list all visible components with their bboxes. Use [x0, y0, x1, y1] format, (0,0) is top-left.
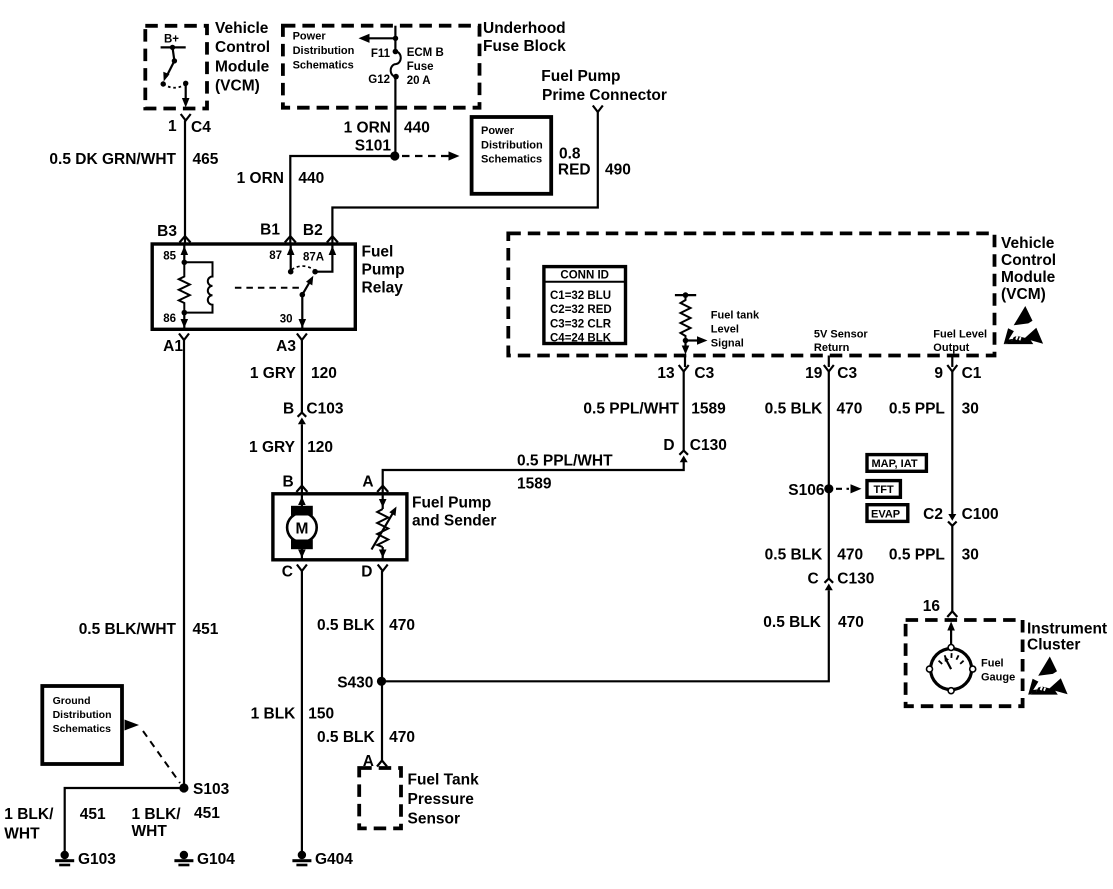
svg-text:0.5 PPL/WHT: 0.5 PPL/WHT	[583, 401, 679, 418]
dashed arrow S101 to power distribution schematics	[402, 151, 460, 160]
relay pin 87 with arrow	[269, 244, 294, 275]
fuel level output label	[933, 329, 987, 355]
svg-text:120: 120	[311, 365, 337, 382]
svg-text:C1=32 BLU: C1=32 BLU	[550, 290, 611, 302]
svg-text:Return: Return	[814, 342, 850, 354]
svg-text:C1: C1	[962, 365, 982, 382]
svg-text:Fuel Pump: Fuel Pump	[541, 68, 620, 85]
svg-text:Pump: Pump	[362, 262, 405, 279]
connector B1 at relay	[260, 222, 296, 243]
ESD symbol at VCM	[1004, 306, 1043, 344]
relay coil resistor	[179, 262, 190, 312]
svg-text:87: 87	[269, 250, 282, 262]
svg-text:30: 30	[962, 401, 979, 418]
wire label 0.8 RED 490	[558, 146, 631, 179]
wire C2 C100 down to instrument cluster pin 16	[951, 526, 953, 611]
wire VCM pin 1 down to relay B3	[184, 121, 186, 244]
connector A3 below relay	[276, 334, 307, 356]
ground G103	[55, 851, 116, 868]
svg-text:Distribution: Distribution	[293, 45, 355, 57]
svg-text:A: A	[362, 474, 373, 491]
svg-text:C4: C4	[191, 119, 211, 136]
svg-text:C3: C3	[837, 365, 857, 382]
wire label 0.5 DK GRN/WHT 465	[49, 151, 218, 168]
underhood fuse block dashed box	[283, 20, 566, 108]
inline connector D C130	[663, 437, 726, 462]
svg-text:0.5 BLK: 0.5 BLK	[317, 617, 376, 634]
svg-text:EVAP: EVAP	[871, 508, 900, 520]
wire label 1 BLK/WHT 451 left branch	[4, 806, 106, 843]
svg-text:Fuel Pump: Fuel Pump	[412, 495, 491, 512]
connector 1 C4	[168, 114, 211, 136]
svg-text:Fuel tank: Fuel tank	[711, 310, 760, 322]
connector D below fuel pump	[361, 564, 387, 581]
wire C C130 down and left to splice S430	[382, 590, 829, 681]
fuel gauge	[927, 645, 1016, 694]
splice S430	[337, 675, 386, 692]
svg-text:451: 451	[80, 806, 106, 823]
svg-text:Schematics: Schematics	[293, 60, 354, 72]
svg-text:Fuel Tank: Fuel Tank	[408, 772, 480, 789]
svg-text:Fuel: Fuel	[981, 658, 1004, 670]
svg-text:13: 13	[657, 365, 675, 382]
splice S101	[355, 138, 400, 161]
svg-text:WHT: WHT	[4, 826, 40, 843]
dashed arrow ground box to S103	[125, 720, 181, 784]
svg-text:ECM B: ECM B	[407, 47, 444, 59]
svg-text:20 A: 20 A	[407, 75, 431, 87]
svg-text:Schematics: Schematics	[481, 154, 542, 166]
wire D down to splice S430	[381, 571, 383, 681]
svg-text:465: 465	[193, 151, 219, 168]
svg-text:C100: C100	[962, 506, 999, 523]
svg-text:1 BLK: 1 BLK	[251, 706, 297, 723]
svg-text:0.5 BLK: 0.5 BLK	[765, 547, 824, 564]
svg-text:1 ORN: 1 ORN	[344, 120, 391, 137]
inline connector B C103	[283, 401, 344, 425]
svg-text:B3: B3	[157, 223, 177, 240]
relay actuation dashed line	[235, 287, 299, 289]
connector A at fuel pump	[362, 474, 388, 493]
svg-text:C2: C2	[923, 506, 943, 523]
svg-text:1589: 1589	[517, 476, 552, 493]
relay coil inductor	[184, 262, 212, 312]
svg-text:MAP, IAT: MAP, IAT	[872, 458, 918, 470]
svg-text:B1: B1	[260, 222, 280, 239]
wire A up and right to connector D C130	[383, 462, 684, 494]
MAP, IAT box	[867, 455, 926, 472]
svg-text:451: 451	[194, 805, 220, 822]
svg-text:D: D	[663, 437, 674, 454]
svg-text:0.8: 0.8	[559, 146, 581, 163]
wire C down to ground G404	[301, 571, 303, 852]
svg-text:470: 470	[389, 617, 415, 634]
wire 19 C3 down to splice S106	[828, 372, 830, 579]
svg-text:0.5 BLK: 0.5 BLK	[763, 614, 822, 631]
svg-text:0.5 PPL: 0.5 PPL	[889, 401, 945, 418]
relay pin 30 with exit arrow	[280, 297, 306, 329]
svg-text:Level: Level	[711, 324, 739, 336]
svg-text:Cluster: Cluster	[1027, 637, 1080, 654]
svg-text:C4=24 BLK: C4=24 BLK	[550, 333, 612, 345]
svg-text:Sensor: Sensor	[408, 811, 461, 828]
wire label 1 ORN 440	[237, 170, 325, 187]
connector C below fuel pump	[282, 564, 307, 581]
svg-text:Control: Control	[1001, 252, 1056, 269]
svg-text:19: 19	[805, 365, 823, 382]
wire label 1 ORN 440	[344, 120, 430, 137]
svg-text:1589: 1589	[691, 401, 726, 418]
wire pin 16 into fuel gauge with arrow	[947, 622, 955, 646]
svg-text:Vehicle: Vehicle	[215, 20, 269, 37]
svg-text:C103: C103	[306, 401, 343, 418]
svg-text:1 BLK/: 1 BLK/	[132, 806, 182, 823]
wire label 0.5 BLK 470	[317, 729, 415, 746]
svg-text:440: 440	[404, 120, 430, 137]
svg-text:RED: RED	[558, 162, 591, 179]
ground G404	[292, 851, 353, 868]
svg-text:Module: Module	[1001, 269, 1056, 286]
svg-text:0.5 BLK: 0.5 BLK	[765, 401, 824, 418]
fuel pump relay driver switch inside VCM	[161, 47, 190, 107]
wire S430 down to fuel tank pressure sensor	[381, 681, 383, 760]
svg-text:85: 85	[163, 251, 176, 263]
inline connector C C130	[807, 571, 874, 591]
svg-text:Pressure: Pressure	[408, 791, 475, 808]
wire 9 C1 down to connector C2 C100	[951, 372, 953, 515]
svg-text:451: 451	[193, 621, 219, 638]
node B+ terminal inside VCM	[161, 34, 186, 51]
svg-text:CONN ID: CONN ID	[560, 270, 609, 282]
svg-text:F11: F11	[371, 48, 391, 60]
svg-text:S103: S103	[193, 781, 230, 798]
svg-text:B: B	[282, 474, 293, 491]
svg-text:TFT: TFT	[874, 484, 894, 496]
wire label 1 GRY 120	[250, 365, 337, 382]
svg-text:Gauge: Gauge	[981, 672, 1015, 684]
wire label 0.5 BLK/WHT 451	[79, 621, 219, 638]
wire prime connector down and left to relay B2	[332, 112, 597, 243]
svg-text:87A: 87A	[303, 252, 324, 264]
splice S103	[179, 781, 229, 798]
svg-text:Distribution: Distribution	[53, 709, 112, 721]
svg-text:Signal: Signal	[711, 338, 744, 350]
wire C103 down to fuel pump B	[301, 424, 303, 493]
svg-text:Fuel Level: Fuel Level	[933, 329, 987, 341]
svg-text:490: 490	[605, 162, 631, 179]
wire label 0.5 PPL 30	[889, 401, 979, 418]
fuel tank level signal pull-up resistor	[675, 292, 760, 354]
ground distribution schematics box	[42, 686, 122, 764]
instrument cluster dashed box	[906, 620, 1107, 706]
svg-text:Power: Power	[293, 31, 327, 43]
svg-text:5V Sensor: 5V Sensor	[814, 329, 869, 341]
wire label 0.5 BLK 470	[765, 401, 863, 418]
svg-text:120: 120	[307, 439, 333, 456]
power distribution schematics solid box	[472, 117, 552, 194]
svg-text:Control: Control	[215, 39, 270, 56]
svg-text:30: 30	[280, 314, 293, 326]
wire S101 left and down to relay B1	[290, 156, 395, 243]
svg-text:Underhood: Underhood	[483, 20, 566, 37]
svg-text:0.5 DK GRN/WHT: 0.5 DK GRN/WHT	[49, 151, 176, 168]
svg-text:9: 9	[934, 365, 943, 382]
wire label 0.5 PPL/WHT 1589	[517, 453, 613, 493]
svg-text:0.5 PPL/WHT: 0.5 PPL/WHT	[517, 453, 613, 470]
svg-text:470: 470	[838, 614, 864, 631]
wire label 0.5 BLK 470 below S106	[765, 547, 863, 564]
connector 19 C3	[805, 356, 857, 383]
CONN ID table	[544, 267, 626, 345]
svg-text:C130: C130	[837, 571, 874, 588]
wire fuse G12 down to S101	[394, 77, 396, 156]
svg-text:0.5 BLK/WHT: 0.5 BLK/WHT	[79, 621, 177, 638]
svg-text:0.5 BLK: 0.5 BLK	[317, 729, 376, 746]
svg-text:1 GRY: 1 GRY	[250, 365, 297, 382]
svg-text:470: 470	[389, 729, 415, 746]
connector B at fuel pump	[282, 474, 307, 493]
svg-text:M: M	[295, 521, 308, 538]
svg-text:C130: C130	[690, 437, 727, 454]
ESD symbol at instrument cluster	[1028, 657, 1067, 695]
fuel pump and sender box	[273, 494, 497, 560]
svg-text:(VCM): (VCM)	[1001, 286, 1046, 303]
EVAP box	[867, 505, 908, 522]
svg-text:and Sender: and Sender	[412, 513, 496, 530]
svg-text:Fuse: Fuse	[407, 61, 434, 73]
svg-text:16: 16	[923, 598, 941, 615]
svg-text:1 ORN: 1 ORN	[237, 170, 284, 187]
svg-text:470: 470	[837, 547, 863, 564]
svg-text:Fuel: Fuel	[362, 244, 394, 261]
svg-text:1 GRY: 1 GRY	[249, 439, 296, 456]
TFT box	[867, 481, 900, 498]
wire A1 down to splice S103	[183, 340, 185, 788]
wire 13 C3 down to connector D C130	[683, 372, 685, 451]
svg-text:Power: Power	[481, 125, 515, 137]
wire feed into fuse with left arrow	[359, 26, 399, 52]
wire A3 down to connector C103	[301, 340, 303, 413]
relay pin 86 with exit arrow	[163, 310, 188, 329]
fuel tank pressure sensor dashed box	[359, 768, 479, 828]
svg-text:470: 470	[837, 401, 863, 418]
svg-text:Distribution: Distribution	[481, 139, 543, 151]
wire label 0.5 PPL/WHT 1589	[583, 401, 726, 418]
connector A1 below relay	[163, 334, 189, 356]
svg-text:Fuse Block: Fuse Block	[483, 38, 566, 55]
relay pin 85 with entry arrow	[163, 244, 188, 265]
svg-text:1 BLK/: 1 BLK/	[4, 806, 54, 823]
svg-text:440: 440	[298, 170, 324, 187]
svg-text:Schematics: Schematics	[53, 723, 112, 735]
svg-text:D: D	[361, 564, 372, 581]
vehicle control module (VCM) right dashed box	[508, 233, 1056, 355]
svg-text:A3: A3	[276, 338, 296, 355]
inline connector C2 C100	[923, 506, 998, 526]
relay switch lever and pivot	[300, 276, 314, 298]
wire label 0.5 BLK 470	[317, 617, 415, 634]
svg-text:0.5 PPL: 0.5 PPL	[889, 547, 945, 564]
ground G104	[174, 851, 235, 868]
svg-text:S430: S430	[337, 675, 373, 692]
5V sensor return label	[814, 329, 869, 355]
wire label 1 BLK/WHT 451 centre branch	[132, 805, 221, 840]
fuel pump motor M	[287, 494, 317, 560]
svg-text:C2=32 RED: C2=32 RED	[550, 304, 612, 316]
relay switch throw dashed arc	[292, 266, 314, 270]
svg-text:Prime Connector: Prime Connector	[542, 87, 667, 104]
svg-text:C3=32 CLR: C3=32 CLR	[550, 319, 612, 331]
svg-text:C: C	[807, 571, 818, 588]
svg-text:30: 30	[962, 547, 979, 564]
svg-text:B+: B+	[164, 34, 179, 46]
wire label 1 BLK 150	[251, 706, 335, 723]
svg-text:WHT: WHT	[132, 823, 168, 840]
connector B3 at relay	[157, 223, 190, 243]
svg-text:Output: Output	[933, 342, 969, 354]
svg-text:86: 86	[163, 313, 176, 325]
svg-text:150: 150	[308, 706, 334, 723]
fuel pump relay box	[152, 244, 404, 330]
connector 16 at instrument cluster	[923, 598, 958, 617]
fuel pump prime connector	[541, 68, 667, 112]
svg-text:C: C	[282, 564, 293, 581]
svg-text:B: B	[283, 401, 294, 418]
connector A at fuel tank pressure sensor	[363, 753, 387, 770]
svg-text:A1: A1	[163, 338, 183, 355]
wire label 0.5 BLK 470	[763, 614, 864, 631]
svg-text:1: 1	[168, 118, 177, 135]
svg-text:Relay: Relay	[362, 280, 404, 297]
svg-text:C3: C3	[694, 365, 714, 382]
svg-text:S106: S106	[788, 482, 825, 499]
connector B2 at relay	[303, 222, 338, 243]
svg-text:Module: Module	[215, 59, 270, 76]
svg-text:G103: G103	[78, 851, 116, 868]
svg-text:Instrument: Instrument	[1027, 621, 1107, 638]
svg-text:Vehicle: Vehicle	[1001, 235, 1055, 252]
relay pin 87A wire from B2	[303, 244, 336, 275]
svg-text:G404: G404	[315, 851, 353, 868]
wire label 1 GRY 120	[249, 439, 333, 456]
connector 13 C3	[657, 356, 714, 383]
svg-text:Ground: Ground	[53, 695, 91, 707]
connector 9 C1	[934, 356, 981, 383]
splice S106 with dashed arrow	[788, 482, 861, 499]
vehicle control module (VCM) top-left dashed box	[145, 20, 270, 109]
svg-text:G12: G12	[368, 74, 390, 86]
wire S103 left and down to ground G103	[65, 788, 184, 852]
svg-text:S101: S101	[355, 138, 392, 155]
svg-text:G104: G104	[197, 851, 235, 868]
fuse F11 ECM B 20A	[368, 47, 444, 87]
svg-text:(VCM): (VCM)	[215, 78, 260, 95]
wire label 0.5 PPL 30	[889, 547, 979, 564]
svg-text:B2: B2	[303, 222, 323, 239]
fuel level sender variable resistor	[372, 494, 397, 560]
